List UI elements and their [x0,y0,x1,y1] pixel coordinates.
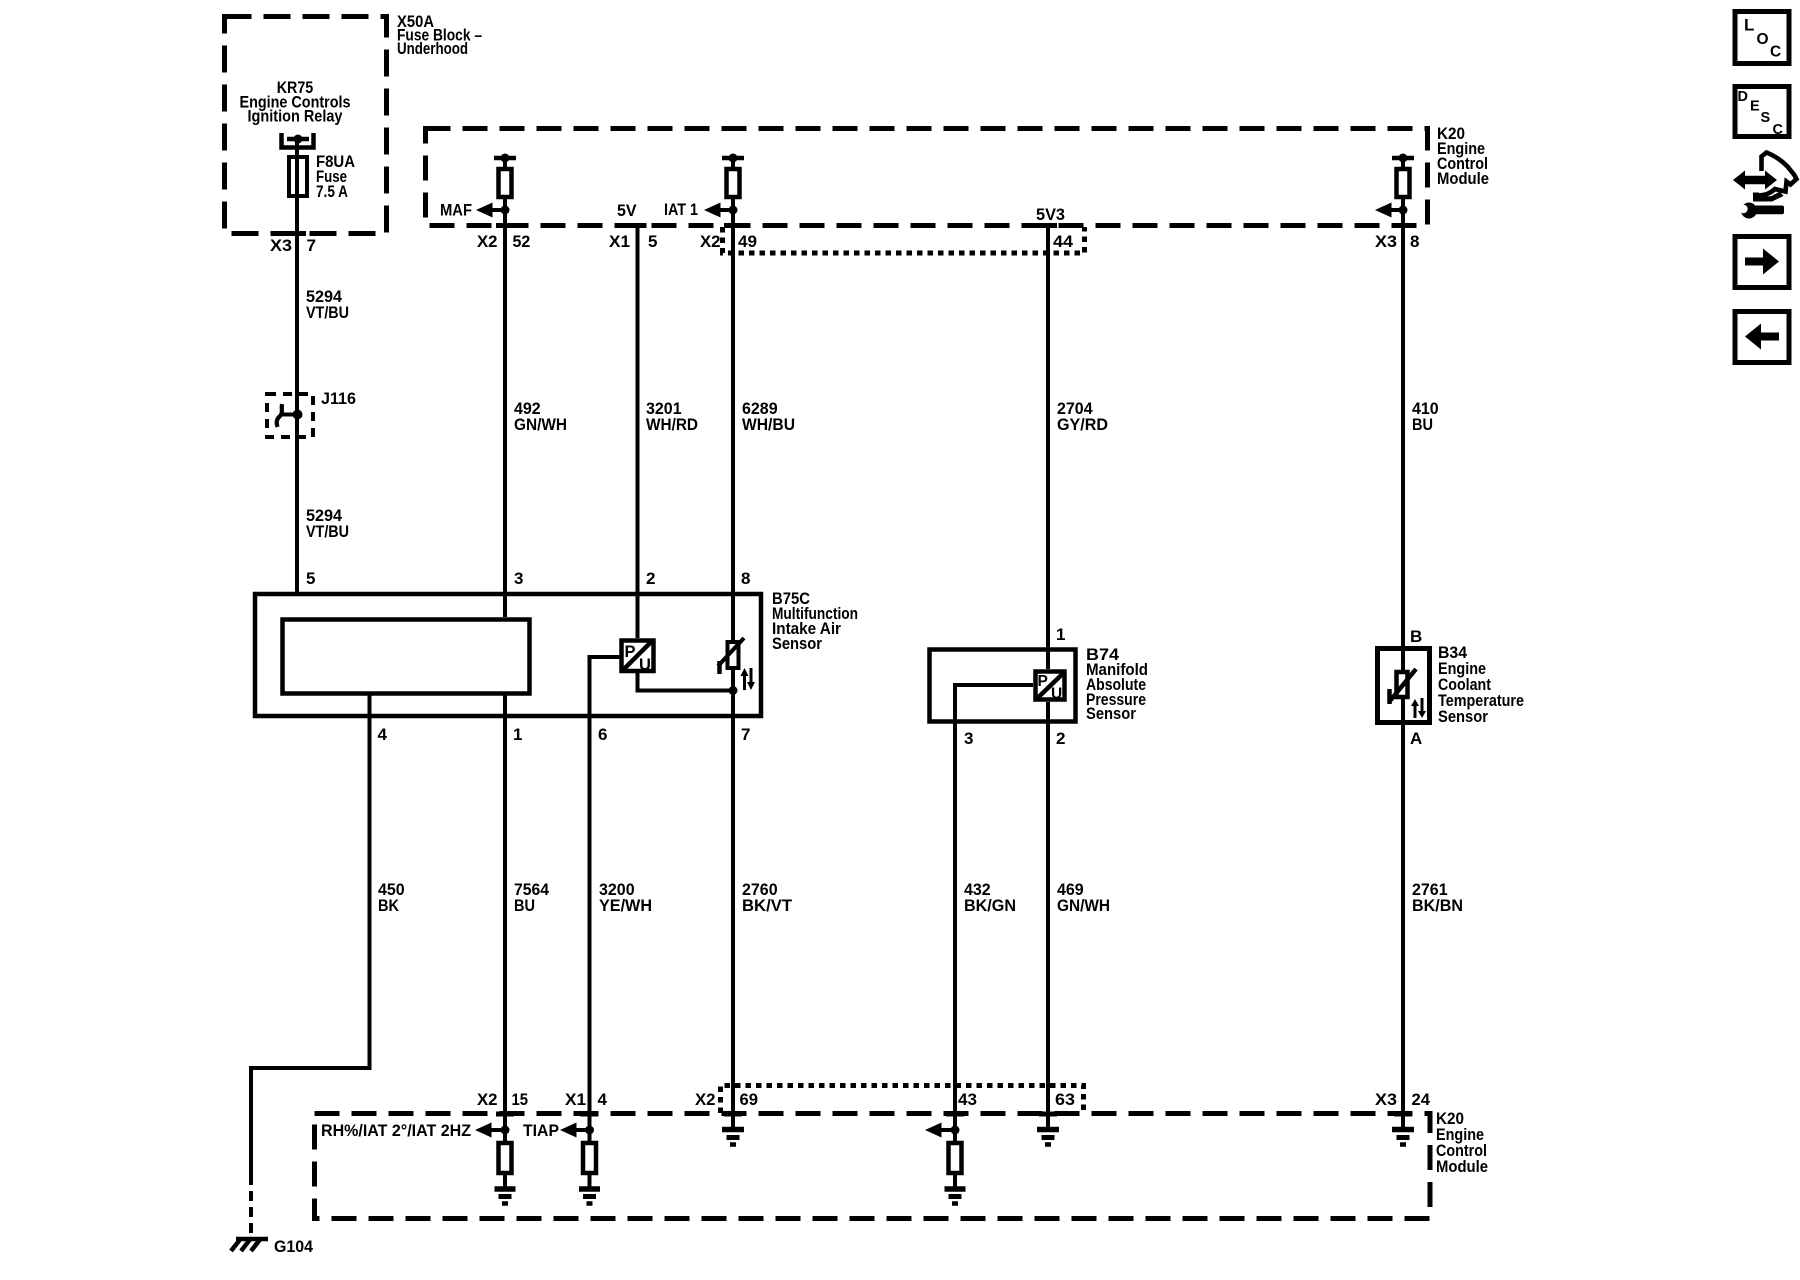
svg-text:Underhood: Underhood [397,39,468,58]
svg-text:GN/WH: GN/WH [1057,896,1110,915]
svg-text:J116: J116 [321,389,356,408]
ECM K20 top dashed box [426,129,1428,226]
svg-text:43: 43 [958,1090,977,1109]
svg-text:5V: 5V [617,201,637,220]
fuse block X50A dashed box [225,17,387,234]
svg-text:U: U [1051,686,1062,703]
svg-text:44: 44 [1053,232,1074,251]
splice J116 symbol [277,404,303,427]
wire 410 BU / 2761 BK/BN from ECM X3-8 through B34 to ECM X3-24 [1401,158,1405,1128]
sensor B74 box [930,650,1076,722]
svg-text:S: S [1761,110,1771,126]
svg-text:1: 1 [1056,625,1065,644]
fuse F8UA 7.5A [289,157,307,196]
svg-text:15: 15 [512,1090,529,1109]
svg-text:5: 5 [648,232,657,251]
svg-text:Ignition Relay: Ignition Relay [248,107,343,126]
svg-text:RH%/IAT 2°/IAT 2HZ: RH%/IAT 2°/IAT 2HZ [321,1121,471,1140]
svg-text:D: D [1738,89,1748,105]
svg-text:MAF: MAF [440,201,472,220]
junction node in B75C (thermistor to P/U output) [729,686,738,695]
svg-text:8: 8 [1410,232,1419,251]
svg-text:TIAP: TIAP [523,1121,559,1140]
dotted connector rect pins 69-63 [721,1086,1084,1114]
svg-text:P: P [1038,673,1048,690]
pin tick X1-4 [581,1112,599,1117]
op-amp P/U converter in B75C [622,641,654,675]
wire 7564 BU from B75C pin 1 to ECM X2-15 [503,692,507,1188]
svg-text:O: O [1757,31,1769,48]
sensor B75C inner element rectangle [283,620,530,694]
pin tick X3-24 [1394,1112,1412,1117]
svg-text:BU: BU [514,896,535,915]
svg-text:C: C [1770,44,1781,61]
svg-text:GY/RD: GY/RD [1057,415,1108,434]
svg-text:X2: X2 [695,1090,716,1109]
ground G104 chassis symbol [231,1239,268,1251]
wire 492 GN/WH / MAF from ECM X2-52 to B75C pin 3 [503,158,507,617]
icon back arrow box [1735,312,1789,363]
svg-text:IAT 1: IAT 1 [664,200,698,219]
pin tick X1-5 [629,223,647,228]
ground inside ECM at X3-24 [1392,1130,1414,1145]
svg-text:X2: X2 [477,1090,498,1109]
ECM pull-up resistor at X2-52 (MAF) [476,154,516,218]
svg-text:3: 3 [514,569,523,588]
svg-text:69: 69 [740,1090,759,1109]
icon LOC box [1735,12,1789,64]
wire 2704 GY/RD 5V3 from ECM pin 44 to B74 pin 1 [1046,225,1050,669]
arrow + node at ECM pin 43 [925,1123,960,1138]
svg-text:5V3: 5V3 [1036,205,1065,224]
svg-text:Module: Module [1436,1157,1488,1176]
pin tick X3-8 [1394,223,1412,228]
svg-text:2: 2 [1056,729,1065,748]
svg-text:L: L [1744,16,1754,35]
svg-text:X3: X3 [1375,232,1397,251]
pin tick X3-7 fuse block [288,231,306,236]
pin tick X2-49 [724,223,742,228]
internal resistor at ECM X2-15 [499,1143,512,1173]
svg-text:WH/RD: WH/RD [646,415,698,434]
svg-text:BU: BU [1412,415,1433,434]
ground inside ECM at X2-69 [722,1130,744,1145]
svg-text:X3: X3 [1375,1090,1397,1109]
wire 3201 WH/RD 5V from ECM X1-5 to B75C pin 2 [636,223,640,638]
svg-text:24: 24 [1412,1090,1431,1109]
ECM pull-up resistor at X3-8 [1375,154,1414,218]
pin tick X2-15 [496,1112,514,1117]
svg-text:1: 1 [513,725,522,744]
svg-text:X2: X2 [477,232,498,251]
ground inside ECM below X2-15 [495,1189,516,1204]
svg-text:B: B [1410,627,1422,646]
arrow + node at ECM X1-4 (TIAP) [560,1123,594,1138]
svg-text:WH/BU: WH/BU [742,415,795,434]
svg-text:X1: X1 [609,232,630,251]
ground inside ECM below pin 43 [945,1189,966,1204]
wire 450 BK from B75C pin 4 to ground G104 [251,692,370,1175]
thermistor in B75C [718,638,755,690]
internal resistor at ECM X1-4 [583,1143,596,1173]
svg-text:Sensor: Sensor [1438,707,1488,726]
svg-text:4: 4 [598,1090,608,1109]
pin tick 63 [1039,1112,1057,1117]
sensor B34 box [1378,649,1430,723]
ground inside ECM at pin 63 [1037,1130,1059,1145]
svg-text:YE/WH: YE/WH [599,896,652,915]
dotted connector rect pins 49-44 [723,227,1085,253]
svg-text:X2: X2 [700,232,721,251]
pin tick 43 [946,1112,964,1117]
wire inside B75C from P/U output to thermistor node [638,671,734,691]
sensor B75C outer box [255,594,761,716]
svg-text:7.5 A: 7.5 A [316,182,348,201]
op-amp P/U converter in B74 [1036,672,1065,703]
svg-text:VT/BU: VT/BU [306,522,349,541]
ground inside ECM below X1-4 [579,1189,600,1204]
svg-text:7: 7 [307,236,316,255]
svg-text:BK/VT: BK/VT [742,896,793,915]
svg-text:52: 52 [513,232,531,251]
svg-text:E: E [1750,99,1760,115]
svg-text:U: U [639,656,650,674]
svg-text:G104: G104 [274,1237,314,1256]
svg-text:6: 6 [598,725,607,744]
internal resistor at ECM pin 43 [949,1143,962,1173]
svg-text:Module: Module [1437,169,1489,188]
wire 5294 VT/BU from relay KR75 to B75C pin 5 [295,140,299,592]
wire dashed lead to G104 [249,1175,253,1236]
svg-text:5: 5 [306,569,315,588]
pin tick 44 [1039,223,1057,228]
wire 6289 WH/BU / IAT1 from ECM X2-49 through B75C thermistor to ECM X2-69 [731,158,735,1128]
svg-text:X3: X3 [270,236,292,255]
svg-text:GN/WH: GN/WH [514,415,567,434]
svg-text:BK: BK [378,896,400,915]
svg-text:Sensor: Sensor [772,634,822,653]
icon forward arrow box [1735,237,1789,288]
svg-text:BK/BN: BK/BN [1412,896,1463,915]
svg-text:3: 3 [964,729,973,748]
svg-text:8: 8 [741,569,750,588]
svg-text:P: P [625,643,636,661]
svg-text:BK/GN: BK/GN [964,896,1016,915]
svg-text:A: A [1410,729,1422,748]
wire 469 GN/WH from B74 pin 2 to ECM pin 63 [1046,702,1050,1128]
pin tick X2-69 [724,1112,742,1117]
splice J116 dashed box [267,394,313,437]
wire 432 BK/GN from B74 pin 3 to ECM pin 43 [955,685,1033,1188]
thermistor in B34 [1389,669,1426,718]
svg-text:2: 2 [646,569,655,588]
svg-text:63: 63 [1055,1090,1075,1109]
svg-text:49: 49 [738,232,757,251]
connector pin ticks top ECM [288,226,1412,1115]
ECM pull-up resistor at X2-49 (IAT 1) [704,154,744,218]
svg-text:4: 4 [378,725,388,744]
svg-text:C: C [1773,122,1784,138]
pin tick X2-52 [496,223,514,228]
ECM K20 bottom dashed box [315,1114,1431,1219]
svg-text:X1: X1 [565,1090,586,1109]
icon DESC box [1735,87,1789,139]
svg-text:Sensor: Sensor [1086,704,1136,723]
arrow + node at ECM X2-15 (RH%/IAT) [475,1123,510,1138]
svg-text:7: 7 [741,725,750,744]
wire 3200 YE/WH from B75C pin 6 to ECM X1-4 [590,657,620,1188]
svg-text:VT/BU: VT/BU [306,303,349,322]
relay KR75 contact [282,133,314,148]
icon harness routing (double arrow, outline, wrench) [1733,153,1797,219]
